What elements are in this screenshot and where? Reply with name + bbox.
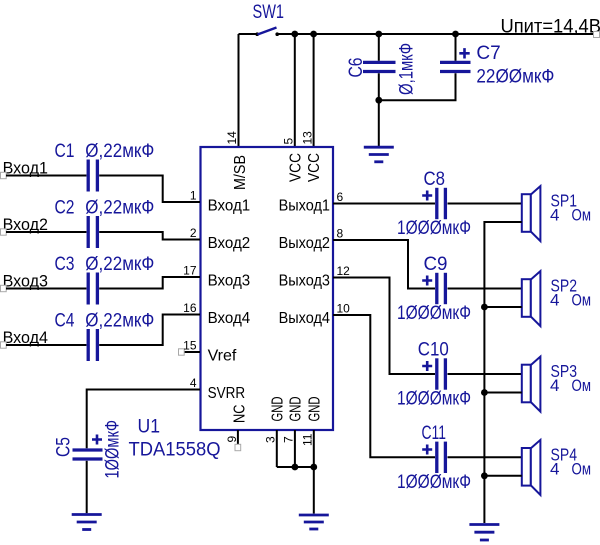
input Вход1 label <box>1 159 49 179</box>
svg-text:GND: GND <box>287 397 304 422</box>
svg-text:GND: GND <box>269 397 286 422</box>
input Вход3 label <box>1 272 49 292</box>
capacitor C4 <box>55 311 155 362</box>
svg-text:M/SB: M/SB <box>232 155 249 190</box>
capacitor C3 <box>55 254 155 305</box>
svg-text:Вход1: Вход1 <box>208 197 251 214</box>
capacitor C6 <box>346 34 418 146</box>
svg-text:C3: C3 <box>55 254 75 275</box>
wire power rail right segment <box>278 33 597 35</box>
node junction GND pin11 <box>310 464 317 471</box>
speaker SP1 <box>522 186 591 241</box>
svg-text:4: 4 <box>550 459 559 478</box>
svg-text:Ø,22мкФ: Ø,22мкФ <box>85 311 154 332</box>
node junction SP3 return <box>481 389 488 396</box>
svg-text:Ом: Ом <box>572 291 592 310</box>
svg-text:C2: C2 <box>55 198 75 219</box>
svg-text:4: 4 <box>550 206 559 225</box>
svg-text:Uпит=14,4В: Uпит=14,4В <box>501 17 600 38</box>
capacitor C9 <box>397 254 471 324</box>
node junction GND pin7 <box>292 464 299 471</box>
svg-text:8: 8 <box>337 227 344 241</box>
svg-text:U1: U1 <box>138 417 161 438</box>
svg-text:Выход3: Выход3 <box>279 272 330 289</box>
svg-text:Ом: Ом <box>572 376 592 395</box>
wire pin5 stub <box>294 34 296 147</box>
svg-text:Ø,22мкФ: Ø,22мкФ <box>85 198 154 219</box>
svg-text:Vref: Vref <box>208 347 237 364</box>
svg-text:22ØØмкФ: 22ØØмкФ <box>476 67 554 88</box>
svg-text:C5: C5 <box>54 437 75 457</box>
svg-text:11: 11 <box>301 433 315 446</box>
ground under C6 <box>364 147 394 162</box>
wire input2 <box>6 232 200 240</box>
wire pin14 stub <box>238 34 240 147</box>
svg-text:C6: C6 <box>346 58 367 78</box>
wire output3 <box>333 278 522 375</box>
svg-text:VCC: VCC <box>306 153 323 182</box>
svg-text:C10: C10 <box>418 340 449 361</box>
svg-text:C8: C8 <box>424 169 446 190</box>
speaker SP4 <box>522 440 591 495</box>
wire pin13 stub <box>313 34 315 147</box>
svg-text:C4: C4 <box>55 311 75 332</box>
IC pin names and numbers <box>208 153 330 423</box>
svg-text:1ØØØмкФ: 1ØØØмкФ <box>397 303 471 324</box>
wire GND pins 3,7,11 <box>277 430 314 514</box>
capacitor C10 <box>397 340 471 410</box>
ground under C5 <box>72 515 102 530</box>
svg-text:10: 10 <box>337 302 351 316</box>
svg-text:1ØØØмкФ: 1ØØØмкФ <box>397 472 471 493</box>
input Вход4 label <box>1 328 49 348</box>
svg-text:C1: C1 <box>55 141 75 162</box>
ground under IC <box>299 515 329 529</box>
wire SP1 return <box>484 222 521 523</box>
svg-text:C7: C7 <box>476 43 500 64</box>
svg-text:Ø,22мкФ: Ø,22мкФ <box>85 254 154 275</box>
svg-text:3: 3 <box>264 436 278 443</box>
terminal Uпит <box>594 32 600 38</box>
svg-text:4: 4 <box>190 376 197 390</box>
svg-text:14: 14 <box>225 131 239 145</box>
capacitor C8 <box>397 169 471 239</box>
svg-text:Вход4: Вход4 <box>208 310 251 327</box>
ground speakers <box>469 525 499 541</box>
svg-text:Вход3: Вход3 <box>208 272 251 289</box>
node junction SP2 return <box>481 304 488 311</box>
wire SVRR pin4 <box>87 390 200 449</box>
wire input3 <box>6 277 200 289</box>
IC U1 body <box>201 147 334 430</box>
capacitor C11 <box>397 423 471 493</box>
node junction C6/C7 bottom <box>375 97 382 104</box>
svg-text:17: 17 <box>183 264 197 278</box>
capacitor C7 <box>379 34 555 100</box>
node junction C6 rail <box>375 31 382 38</box>
input Вход2 label <box>1 215 49 235</box>
svg-text:4: 4 <box>550 376 559 395</box>
svg-text:Ом: Ом <box>572 206 592 225</box>
svg-text:1: 1 <box>190 189 197 203</box>
wire power rail left segment <box>239 33 257 35</box>
pin numbers <box>183 131 350 446</box>
wire output4 <box>333 315 522 457</box>
node junction SP4 return <box>481 472 488 479</box>
speaker SP2 <box>522 271 591 326</box>
svg-text:NC: NC <box>232 405 249 424</box>
svg-text:5: 5 <box>282 138 296 145</box>
svg-text:SVRR: SVRR <box>208 385 246 402</box>
svg-text:Выход2: Выход2 <box>279 235 330 252</box>
svg-text:Ом: Ом <box>572 459 592 478</box>
svg-text:Вход2: Вход2 <box>208 235 251 252</box>
svg-text:Ø,1мкФ: Ø,1мкФ <box>397 43 418 95</box>
wire C5 to ground <box>86 461 88 513</box>
node junction C7 rail <box>452 31 459 38</box>
wire output1 <box>333 203 522 205</box>
svg-text:1ØØØмкФ: 1ØØØмкФ <box>397 389 471 410</box>
capacitor C5 <box>54 420 124 479</box>
wire input1 <box>6 176 200 203</box>
pin 15 Vref stub <box>179 349 201 355</box>
svg-text:Выход4: Выход4 <box>279 310 330 327</box>
capacitor C1 <box>55 141 155 192</box>
svg-text:1ØØмкФ: 1ØØмкФ <box>103 420 124 479</box>
speaker SP3 <box>522 357 591 412</box>
svg-text:4: 4 <box>550 291 559 310</box>
node junction pin13 rail <box>310 31 317 38</box>
svg-text:GND: GND <box>306 397 323 422</box>
svg-text:12: 12 <box>337 264 351 278</box>
wire SP2 return <box>484 306 521 308</box>
svg-text:SW1: SW1 <box>253 2 285 23</box>
switch SW1 <box>253 2 285 36</box>
pin 9 NC stub <box>235 430 241 451</box>
svg-text:6: 6 <box>337 190 344 204</box>
svg-text:TDA1558Q: TDA1558Q <box>129 440 221 461</box>
svg-text:16: 16 <box>183 301 197 315</box>
svg-text:C11: C11 <box>422 423 447 444</box>
svg-text:VCC: VCC <box>288 153 305 182</box>
wire SP4 return <box>484 475 521 477</box>
wire input4 <box>6 315 200 346</box>
wire SP3 return <box>484 392 521 394</box>
svg-text:1ØØØмкФ: 1ØØØмкФ <box>397 218 471 239</box>
node junction pin5 rail <box>291 31 298 38</box>
svg-text:9: 9 <box>225 436 239 443</box>
svg-text:C9: C9 <box>424 254 448 275</box>
svg-text:2: 2 <box>190 226 197 240</box>
capacitor C2 <box>55 198 155 249</box>
svg-text:Ø,22мкФ: Ø,22мкФ <box>85 141 154 162</box>
svg-text:15: 15 <box>183 339 197 353</box>
svg-text:7: 7 <box>282 436 296 443</box>
svg-text:Выход1: Выход1 <box>279 197 330 214</box>
svg-text:13: 13 <box>300 131 314 145</box>
wire output2 <box>333 240 522 289</box>
